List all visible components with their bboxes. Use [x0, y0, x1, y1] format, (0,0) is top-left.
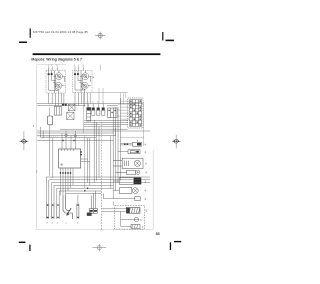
wires into CDI from top with connector circles — [62, 131, 75, 149]
gauge circle 2 box L — [55, 82, 62, 89]
component: tail lamp unit lead — [120, 142, 132, 144]
svg-text:6/67750.qxd 19.04.2004 14:38: 6/67750.qxd 19.04.2004 14:38 Page 85 — [33, 30, 88, 34]
component: regulator (tall rounded) — [48, 116, 53, 125]
crop mark: dash under header — [19, 42, 27, 44]
component: rectifier lead — [118, 151, 128, 153]
wires inside box L — [49, 75, 58, 90]
wire drops from box R to middle bus — [75, 93, 90, 107]
registration mark right edge — [172, 135, 181, 149]
gauge circle 1 box R — [82, 73, 89, 80]
component: fuse holder tall w/ dark top — [87, 104, 91, 121]
svg-text:b: b — [93, 102, 94, 104]
bulb lamps box L — [48, 73, 50, 75]
component: handlebar switch grid box (dashed) — [128, 98, 143, 128]
component: horn assembly box w/ circle — [113, 158, 143, 168]
stub labels — [46, 223, 79, 225]
faint dashed guide — [38, 135, 59, 137]
component: flasher switch lower w/ cross — [67, 112, 74, 119]
svg-text:85: 85 — [156, 232, 160, 236]
bulb ticks inside box R — [74, 71, 76, 74]
main vertical trunk right — [111, 98, 121, 199]
junction connector dots — [62, 103, 64, 105]
component: CDI / control unit big box — [59, 149, 81, 168]
junction dots left of magneto — [84, 190, 86, 192]
component: speedometer drive bar w/ circle — [116, 170, 140, 174]
wire J-bend to engine — [63, 196, 72, 220]
component: tail lamp (circle-X) — [113, 188, 138, 194]
crop mark bottom-left vertical — [29, 245, 30, 251]
svg-text:b: b — [98, 102, 99, 104]
grid box row leads — [118, 101, 129, 119]
crop mark: header left vertical bar — [30, 28, 31, 37]
crop mark: top right dash — [166, 40, 175, 42]
component: magneto connector pair — [89, 191, 97, 213]
box R dashed border — [72, 71, 92, 93]
bottom connector stubs — [46, 204, 79, 219]
bulb lamps box R — [74, 73, 76, 75]
adjustment arrow — [67, 208, 72, 215]
title rule — [33, 53, 161, 55]
component: fuse circle — [134, 217, 138, 221]
crop mark: top right vertical bar — [162, 32, 163, 41]
bottom bus wires — [46, 177, 150, 204]
wire drops from box L to middle bus — [49, 93, 64, 106]
right margin labels — [145, 143, 148, 201]
wires below CDI with junction dots — [61, 168, 74, 196]
component: flasher switch upper w/ cross — [68, 104, 75, 111]
wire: faint horizontal from box R to grid box — [92, 92, 128, 94]
ticks above box R — [74, 67, 76, 71]
component: switch block — [54, 107, 62, 116]
gauge circle 2 box R — [81, 82, 88, 89]
vertical pair mid — [81, 120, 99, 185]
registration mark top — [95, 32, 105, 40]
middle bus wires — [37, 104, 143, 106]
component: brake switch w/ dark block — [113, 178, 141, 185]
leads into battery box — [102, 208, 127, 210]
left verticals to bottom — [41, 127, 53, 178]
crop mark bottom-right vertical — [170, 242, 171, 250]
ticks above box L — [48, 67, 50, 71]
box L dashed border — [46, 71, 66, 94]
lower-middle bus wires — [37, 120, 150, 140]
wire: vertical right of box R — [99, 65, 101, 71]
bulb ticks inside box L — [48, 71, 50, 74]
faint wire drops right — [83, 88, 125, 188]
crop mark bottom-left horizontal — [19, 242, 26, 243]
gauge circle 1 box L — [56, 73, 63, 80]
registration mark bottom — [92, 244, 106, 251]
dots right edge of CDI — [80, 151, 82, 153]
component: battery (hatched) — [126, 208, 140, 214]
component: small connector — [102, 193, 104, 198]
faint page border of diagram — [37, 65, 154, 230]
connector row w/ dark tops — [92, 104, 105, 116]
crop mark bottom-right horizontal — [174, 241, 181, 242]
faint wire right — [143, 102, 145, 146]
registration mark left edge — [19, 131, 28, 150]
component: sectioned box — [108, 108, 117, 118]
dashed chassis line upper — [101, 122, 103, 183]
wires inside box R — [75, 75, 84, 90]
battery box labels — [140, 210, 148, 229]
component: flasher unit (hatched small) — [121, 220, 140, 229]
svg-text:Mopeds: Wiring diagrams 5 & 7: Mopeds: Wiring diagrams 5 & 7 — [31, 57, 82, 61]
long vertical to battery box — [101, 183, 103, 229]
